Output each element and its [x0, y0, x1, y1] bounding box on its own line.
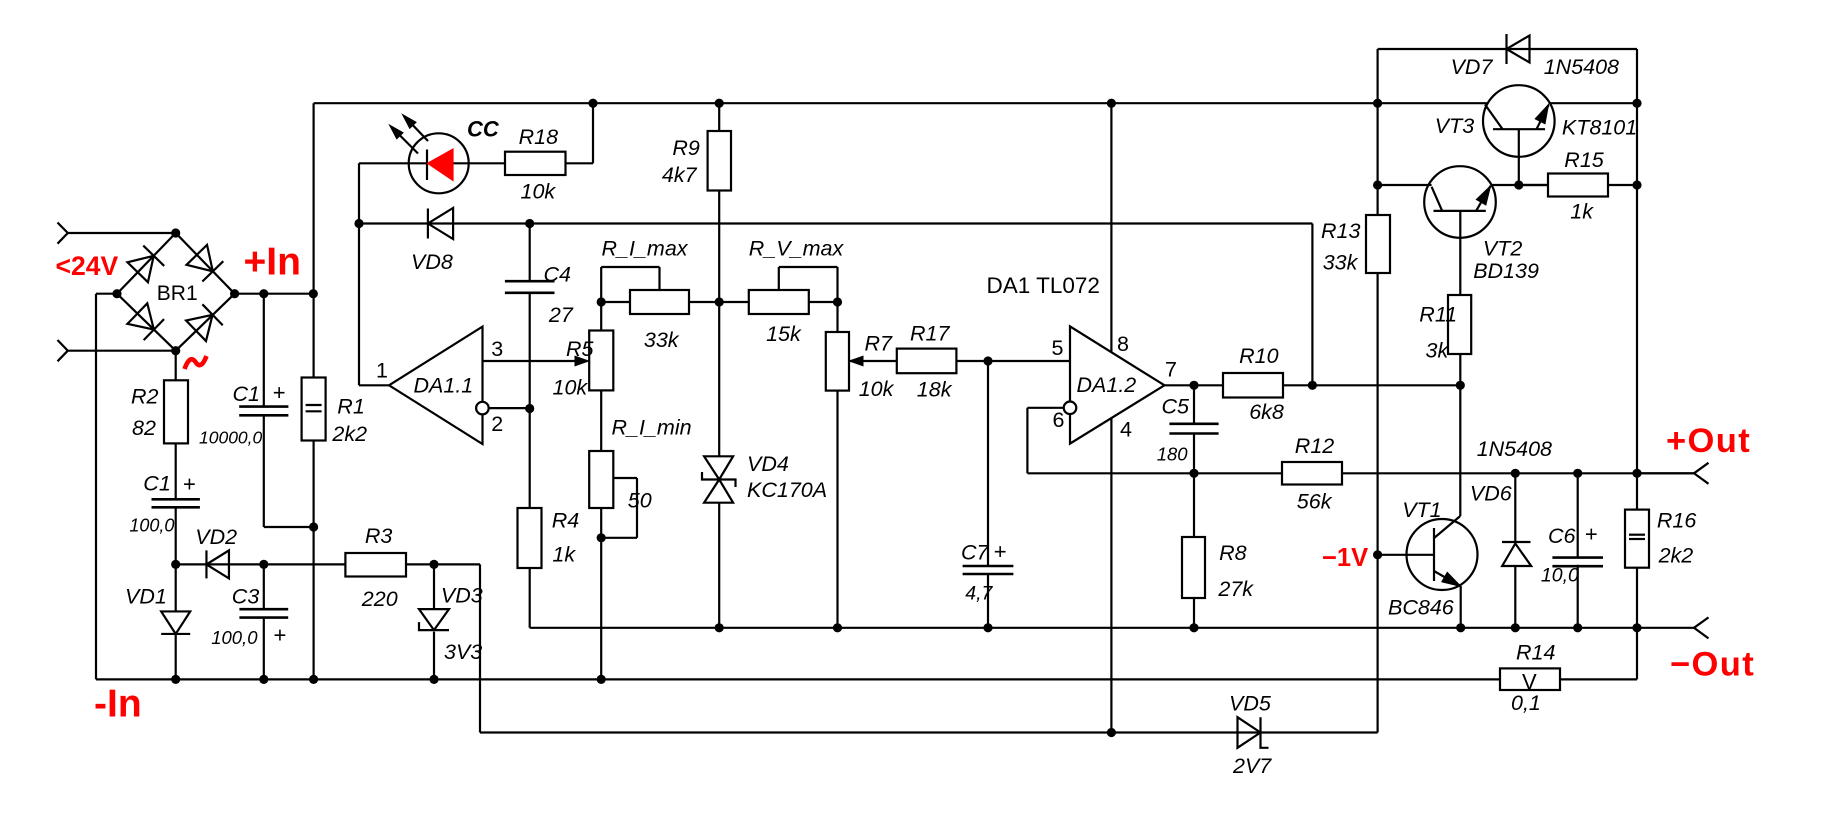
svg-text:6: 6	[1053, 408, 1065, 432]
svg-text:-In: -In	[94, 682, 142, 725]
svg-text:R_I_max: R_I_max	[602, 236, 689, 260]
svg-text:82: 82	[132, 416, 156, 440]
svg-text:VD3: VD3	[441, 584, 483, 608]
svg-text:180: 180	[1157, 444, 1189, 465]
svg-text:27: 27	[548, 303, 574, 327]
svg-text:4: 4	[1120, 417, 1132, 441]
svg-text:+: +	[1585, 522, 1598, 547]
svg-text:18k: 18k	[917, 378, 953, 402]
svg-text:R3: R3	[365, 524, 393, 548]
svg-text:VT3: VT3	[1435, 114, 1474, 138]
svg-text:33k: 33k	[1323, 251, 1359, 275]
svg-text:R_V_max: R_V_max	[749, 237, 845, 261]
svg-text:VT2: VT2	[1483, 237, 1522, 261]
svg-text:VD4: VD4	[747, 452, 789, 476]
svg-text:R11: R11	[1419, 303, 1457, 327]
svg-text:R16: R16	[1657, 508, 1696, 532]
svg-text:2V7: 2V7	[1232, 754, 1272, 778]
svg-text:R12: R12	[1295, 434, 1334, 458]
svg-text:R5: R5	[566, 337, 595, 361]
svg-text:DA1.2: DA1.2	[1077, 373, 1137, 397]
svg-text:15k: 15k	[766, 322, 802, 346]
svg-text:VD8: VD8	[411, 250, 453, 274]
svg-text:8: 8	[1117, 332, 1129, 356]
svg-text:1N5408: 1N5408	[1544, 55, 1619, 79]
svg-text:1: 1	[376, 359, 388, 383]
svg-text:10k: 10k	[859, 377, 895, 401]
svg-text:VD2: VD2	[195, 525, 237, 549]
svg-text:R4: R4	[552, 509, 580, 533]
svg-text:BD139: BD139	[1473, 259, 1539, 283]
svg-text:+: +	[183, 471, 196, 496]
svg-text:0,1: 0,1	[1511, 691, 1541, 715]
svg-text:VT1: VT1	[1402, 498, 1441, 522]
svg-text:6k8: 6k8	[1249, 400, 1284, 424]
svg-text:50: 50	[628, 488, 652, 512]
svg-text:C7: C7	[961, 541, 990, 565]
svg-text:+: +	[273, 380, 286, 405]
svg-text:R18: R18	[519, 125, 558, 149]
svg-text:C5: C5	[1162, 394, 1191, 418]
svg-text:R9: R9	[672, 136, 700, 160]
svg-text:3V3: 3V3	[444, 640, 482, 664]
svg-text:33k: 33k	[644, 328, 680, 352]
svg-text:+In: +In	[244, 240, 301, 283]
svg-text:+Out: +Out	[1666, 422, 1751, 460]
svg-text:4,7: 4,7	[965, 583, 993, 605]
svg-text:10000,0: 10000,0	[199, 428, 263, 448]
svg-text:DA1.1: DA1.1	[414, 373, 474, 397]
svg-text:V: V	[1522, 669, 1537, 694]
svg-text:100,0: 100,0	[129, 516, 174, 536]
svg-text:27k: 27k	[1217, 577, 1254, 601]
svg-text:R7: R7	[865, 331, 894, 355]
svg-text:CC: CC	[467, 116, 500, 141]
svg-text:1N5408: 1N5408	[1477, 437, 1552, 461]
svg-text:C3: C3	[232, 585, 260, 609]
svg-text:5: 5	[1052, 336, 1064, 360]
svg-text:10k: 10k	[553, 375, 589, 399]
svg-text:100,0: 100,0	[211, 627, 258, 648]
svg-text:56k: 56k	[1297, 489, 1333, 513]
svg-text:C6: C6	[1548, 524, 1576, 548]
svg-text:R17: R17	[910, 322, 950, 346]
svg-text:R14: R14	[1516, 640, 1555, 664]
svg-text:R10: R10	[1239, 344, 1278, 368]
svg-text:3: 3	[491, 337, 503, 361]
svg-text:R2: R2	[131, 384, 159, 408]
svg-text:C1: C1	[233, 382, 260, 406]
svg-text:1k: 1k	[552, 543, 576, 567]
svg-text:BC846: BC846	[1388, 596, 1454, 620]
svg-text:R15: R15	[1564, 148, 1604, 172]
svg-text:+: +	[994, 539, 1007, 564]
svg-text:VD5: VD5	[1229, 691, 1272, 715]
svg-text:−Out: −Out	[1670, 645, 1755, 683]
svg-text:C1: C1	[143, 472, 170, 496]
svg-text:4k7: 4k7	[662, 163, 698, 187]
svg-text:1k: 1k	[1570, 200, 1594, 224]
svg-text:2k2: 2k2	[331, 422, 367, 446]
svg-text:VD6: VD6	[1470, 482, 1512, 506]
svg-text:2k2: 2k2	[1658, 544, 1694, 568]
svg-text:VD7: VD7	[1451, 55, 1494, 79]
svg-text:3k: 3k	[1426, 339, 1450, 363]
svg-text:220: 220	[361, 587, 398, 611]
svg-text:R1: R1	[337, 395, 364, 419]
svg-text:R13: R13	[1321, 219, 1360, 243]
svg-text:DA1 TL072: DA1 TL072	[987, 273, 1100, 298]
svg-text:KC170A: KC170A	[747, 478, 827, 502]
svg-text:−1V: −1V	[1322, 544, 1368, 572]
svg-text:C4: C4	[544, 263, 572, 287]
svg-text:VD1: VD1	[125, 585, 167, 609]
svg-text:7: 7	[1165, 357, 1177, 381]
svg-text:10k: 10k	[521, 179, 557, 203]
svg-text:R8: R8	[1219, 541, 1247, 565]
svg-text:10,0: 10,0	[1541, 565, 1579, 587]
svg-text:+: +	[274, 622, 287, 647]
svg-text:2: 2	[491, 412, 503, 436]
svg-text:BR1: BR1	[157, 282, 198, 305]
svg-text:<24V: <24V	[56, 251, 119, 281]
svg-text:R_I_min: R_I_min	[612, 416, 692, 440]
svg-text:KT8101: KT8101	[1562, 115, 1637, 139]
